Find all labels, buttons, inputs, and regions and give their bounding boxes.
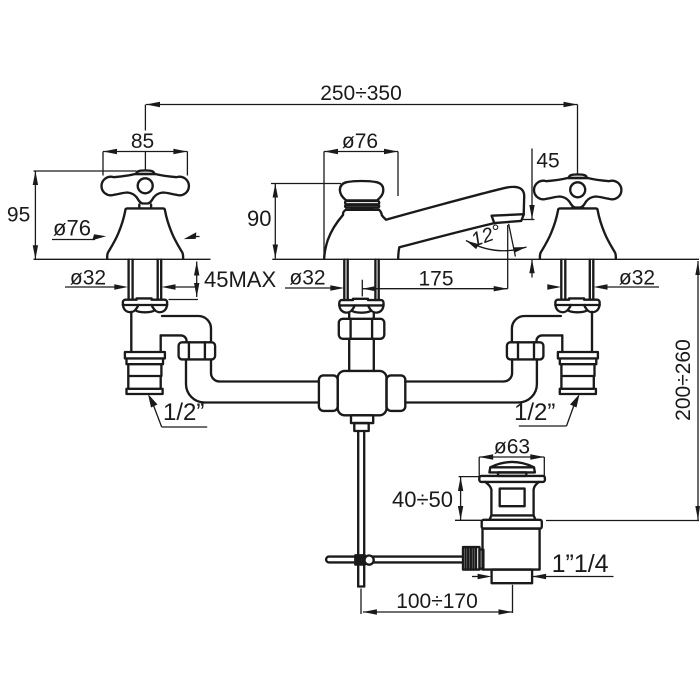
svg-text:ø32: ø32 xyxy=(289,267,325,290)
svg-text:45: 45 xyxy=(536,150,559,173)
svg-text:175: 175 xyxy=(418,268,453,291)
svg-text:95: 95 xyxy=(7,204,30,227)
svg-text:40÷50: 40÷50 xyxy=(392,487,453,512)
svg-text:85: 85 xyxy=(131,130,154,153)
svg-text:45MAX: 45MAX xyxy=(204,267,276,292)
svg-text:1”1/4: 1”1/4 xyxy=(552,550,609,578)
svg-text:ø32: ø32 xyxy=(70,267,106,290)
svg-text:250÷350: 250÷350 xyxy=(320,82,402,105)
svg-text:ø32: ø32 xyxy=(619,267,655,290)
svg-text:90: 90 xyxy=(247,206,271,231)
svg-text:ø76: ø76 xyxy=(53,216,91,241)
svg-text:100÷170: 100÷170 xyxy=(396,590,478,613)
svg-text:200÷260: 200÷260 xyxy=(672,339,695,421)
svg-text:1/2”: 1/2” xyxy=(163,399,204,426)
svg-text:ø76: ø76 xyxy=(342,130,378,153)
svg-text:ø63: ø63 xyxy=(494,436,530,459)
